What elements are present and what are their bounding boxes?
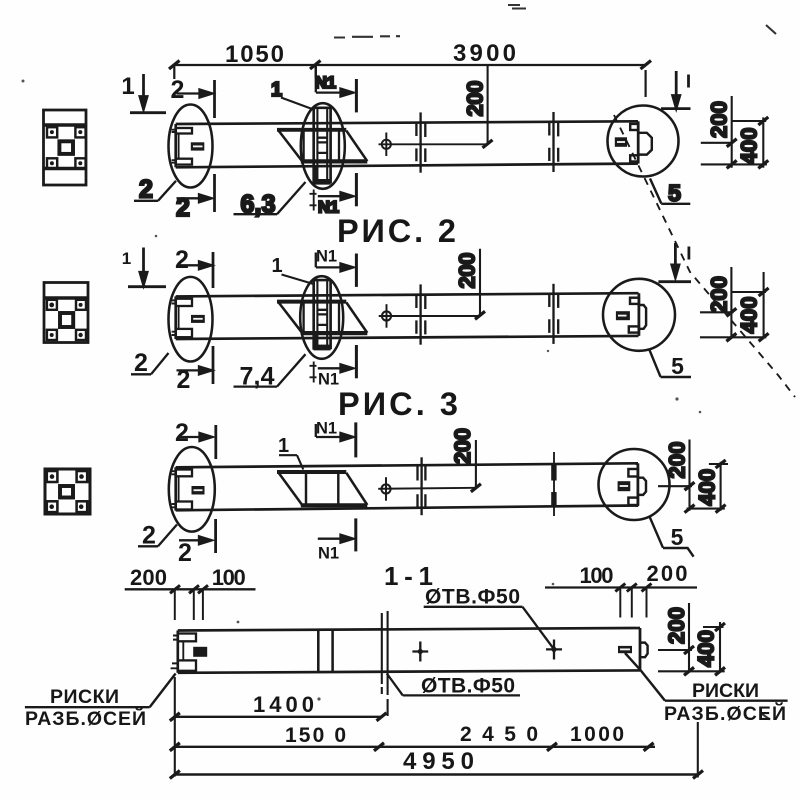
top-right small dims 100 / 200 xyxy=(545,561,697,618)
section mark N1 bottom (fig3) xyxy=(318,518,356,562)
svg-text:5: 5 xyxy=(671,353,684,379)
hole axis symbol (fig3) xyxy=(378,477,476,501)
vertical dim 200 middle (fig2) xyxy=(455,249,486,319)
svg-text:N1: N1 xyxy=(316,248,337,266)
leader label 1 (fig2) xyxy=(271,255,313,284)
detail leader 5 (fig3) xyxy=(649,516,693,556)
svg-text:100: 100 xyxy=(212,565,246,590)
leader РИСКИ РАЗБ.ОСЕЙ left xyxy=(25,674,176,731)
extension line left x=175 xyxy=(174,677,176,777)
extension line right x=698 xyxy=(697,722,699,778)
svg-text:200: 200 xyxy=(707,276,732,313)
joint lines A (fig3) xyxy=(418,457,426,515)
console corbel (fig1) xyxy=(277,130,367,162)
svg-text:1: 1 xyxy=(122,249,131,268)
right end face + notches + tongue (fig2) xyxy=(629,293,646,336)
leader label 1 (fig1) xyxy=(271,79,314,110)
right end face + notches + tongue (fig1) xyxy=(630,121,652,163)
vertical dim 200 middle (fig3) xyxy=(450,428,481,492)
left end embed detail (fig2) xyxy=(172,299,192,337)
joint lines B bold (fig3) xyxy=(551,452,556,516)
hole cross 2 (section) xyxy=(546,640,562,660)
joint lines B (fig2) xyxy=(549,284,558,344)
leader label 7,4 (fig2) xyxy=(234,354,306,390)
cross-section symbol S2 (middle, column section one band) xyxy=(44,283,88,343)
left end embed detail (fig3) xyxy=(172,470,192,510)
section mark 2 bottom-left (fig1) xyxy=(176,174,214,222)
dim 1400 xyxy=(170,692,387,721)
svg-text:3900: 3900 xyxy=(453,40,516,67)
hole axis symbol (fig1) xyxy=(379,133,488,157)
svg-text:200: 200 xyxy=(463,81,488,117)
detail leader 2 (fig3) xyxy=(138,522,177,550)
axis riska mark left (section) xyxy=(193,647,207,657)
svg-text:РИСКИ: РИСКИ xyxy=(50,686,119,708)
cross-section symbol S3 (bottom, plain square section) xyxy=(45,469,90,514)
svg-text:2: 2 xyxy=(175,419,189,447)
dim 1500 / 2450 / 1000 xyxy=(170,723,655,751)
joint lines A (fig2) xyxy=(416,284,425,344)
svg-text:ØТВ.Ф50: ØТВ.Ф50 xyxy=(421,675,515,698)
scan noise dots xyxy=(22,80,702,701)
left end embed detail (section) xyxy=(171,634,196,671)
joint lines (section) xyxy=(318,630,332,673)
detail ellipse 2 left end (fig1) xyxy=(169,105,213,188)
detail circle 5 right end (fig2) xyxy=(603,279,675,351)
section mark 2 bottom-left (fig3) xyxy=(178,519,216,567)
svg-text:РИСКИ: РИСКИ xyxy=(692,680,759,702)
svg-text:200: 200 xyxy=(707,101,732,138)
detail circle 5 right end (fig3) xyxy=(599,449,670,520)
section mark 1 left (fig2) xyxy=(122,248,166,287)
section mark 1 right (fig2) xyxy=(658,243,691,282)
section mark N1 bottom (fig1) xyxy=(310,173,357,217)
section mark 2 bottom-left (fig2) xyxy=(177,346,214,394)
section mark 1 right (fig1) xyxy=(661,71,691,109)
sleeve element N1 (fig1) xyxy=(313,108,331,185)
svg-text:РАЗБ.ØСЕЙ: РАЗБ.ØСЕЙ xyxy=(25,706,146,730)
svg-text:РИС. 3: РИС. 3 xyxy=(338,386,458,422)
label ОТВ.Ф50 top xyxy=(424,586,554,649)
svg-text:1000: 1000 xyxy=(570,723,624,746)
detail circle 5 right end (fig1) xyxy=(608,106,679,177)
section mark 2 top-left (fig1) xyxy=(177,80,215,118)
cross-section symbol S1 (top, column section with two bands) xyxy=(44,110,87,185)
leader label 1 (fig3) xyxy=(278,435,303,470)
console corbel (fig2) xyxy=(277,302,367,334)
svg-text:N1: N1 xyxy=(315,74,336,92)
detail leader 5 (fig1) xyxy=(650,179,690,207)
bar body (section 1-1) xyxy=(178,628,640,673)
section mark N1 bottom (fig2) xyxy=(310,345,357,389)
bottom-bar right dim 200 xyxy=(658,603,694,675)
label ОТВ.Ф50 bottom xyxy=(387,674,520,698)
svg-text:2: 2 xyxy=(171,76,185,104)
svg-text:400: 400 xyxy=(695,469,720,506)
svg-text:400: 400 xyxy=(694,630,719,667)
top-left small dims 200 / 100 xyxy=(125,565,256,620)
svg-text:N1: N1 xyxy=(316,420,337,438)
joint lines B (fig1) xyxy=(549,112,558,172)
right end face + tongue (section) xyxy=(640,628,648,670)
right dim 400 (fig1) xyxy=(701,117,769,168)
hole cross 1 (section) xyxy=(412,642,428,662)
svg-text:4950: 4950 xyxy=(403,748,474,775)
left end embed detail (fig1) xyxy=(172,128,192,165)
leader РИСКИ РАЗБ.ОСЕЙ right xyxy=(625,653,788,725)
dim 4950 xyxy=(170,748,703,779)
detail leader 2 (fig2) xyxy=(131,349,169,377)
svg-text:2: 2 xyxy=(134,349,148,377)
svg-text:200: 200 xyxy=(665,442,690,479)
axis riska mark right end (fig1) xyxy=(615,137,627,147)
svg-text:2450: 2450 xyxy=(460,723,538,746)
axis riska mark left end (fig2) xyxy=(191,315,205,323)
svg-text:5: 5 xyxy=(671,524,684,550)
right end face + notches + tongue (fig3) xyxy=(628,463,646,505)
svg-text:100: 100 xyxy=(580,563,614,588)
vertical dim 200 middle (fig1) xyxy=(463,65,493,148)
svg-text:200: 200 xyxy=(647,561,688,586)
svg-text:200: 200 xyxy=(450,428,475,464)
detail ellipse left end (fig2) xyxy=(169,277,213,362)
bottom-bar right dim 400 xyxy=(658,622,725,675)
scan noise dashes top xyxy=(334,5,776,720)
right dim 400 (fig3) xyxy=(687,460,728,513)
axis riska mark right end (fig2) xyxy=(616,311,630,320)
axis riska mark left end (fig1) xyxy=(191,142,205,150)
svg-text:1: 1 xyxy=(271,255,282,277)
section mark N1 top (fig1) xyxy=(315,65,356,112)
detail ellipse 3 middle (fig1) xyxy=(301,103,345,189)
joint lines A (fig1) xyxy=(416,112,425,172)
axis riska mark left end (fig3) xyxy=(192,486,205,495)
detail leader 5 (fig2) xyxy=(649,349,691,379)
svg-text:400: 400 xyxy=(737,128,762,165)
svg-text:2: 2 xyxy=(139,176,153,204)
section mark N1 top (fig2) xyxy=(316,248,357,287)
svg-text:N1: N1 xyxy=(318,545,339,563)
svg-text:1: 1 xyxy=(278,435,289,457)
right dim 200 (fig1) xyxy=(701,96,737,168)
svg-text:200: 200 xyxy=(664,607,689,644)
sleeve element N1 (fig2) xyxy=(313,280,331,350)
leader label 6,3 (fig1) xyxy=(234,182,306,219)
svg-text:N1: N1 xyxy=(318,199,339,217)
svg-text:5: 5 xyxy=(668,180,681,206)
axis riska mark right end (fig3) xyxy=(618,481,631,491)
detail ellipse left end (fig3) xyxy=(169,447,215,532)
svg-text:2: 2 xyxy=(175,246,189,274)
axis lines x=385 (section) xyxy=(382,611,388,716)
section mark 1 left (fig1) xyxy=(130,74,166,113)
hole axis symbol (fig2) xyxy=(379,304,480,328)
svg-text:РАЗБ.ØСЕЙ: РАЗБ.ØСЕЙ xyxy=(664,701,786,725)
svg-text:2: 2 xyxy=(178,539,192,567)
column body (fig1) xyxy=(176,121,638,167)
dimension line 1050/3900 xyxy=(169,61,651,98)
svg-text:1: 1 xyxy=(271,79,282,101)
svg-text:РИС. 2: РИС. 2 xyxy=(337,213,456,249)
svg-text:1050: 1050 xyxy=(225,41,284,68)
axis riska mark right (section) xyxy=(618,646,632,653)
long dashed leader line (fig1 to fig2) xyxy=(614,115,795,397)
svg-text:400: 400 xyxy=(737,297,762,334)
console corbel (fig3) xyxy=(277,472,367,505)
svg-text:N1: N1 xyxy=(318,371,339,389)
right dim 200 (fig3) xyxy=(658,440,695,513)
svg-text:1400: 1400 xyxy=(253,692,314,717)
svg-text:ØТВ.Ф50: ØТВ.Ф50 xyxy=(425,586,520,609)
section mark 2 top-left (fig3) xyxy=(175,419,216,459)
svg-text:150 0: 150 0 xyxy=(285,724,346,747)
svg-text:200: 200 xyxy=(130,565,167,590)
section mark N1 top (fig3) xyxy=(316,420,356,458)
column body (fig2) xyxy=(176,293,639,339)
right dim 400 (fig2) xyxy=(700,272,769,341)
svg-text:200: 200 xyxy=(455,253,480,289)
detail leader 2 (fig1) xyxy=(134,176,176,204)
right dim 200 (fig2) xyxy=(700,267,736,341)
svg-text:1: 1 xyxy=(121,73,134,100)
column body (fig3) xyxy=(176,463,638,510)
detail ellipse middle (fig2) xyxy=(300,276,343,359)
section mark 2 top-left (fig2) xyxy=(175,246,213,288)
